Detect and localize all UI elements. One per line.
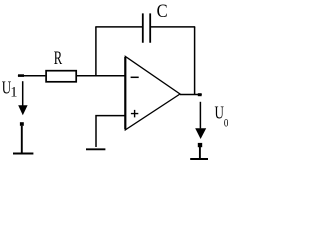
wire capacitor to right corner [151,26,195,28]
svg-text:C: C [157,1,168,22]
node above left ground [20,122,24,126]
node output junction [198,93,202,96]
wire input to resistor [18,75,46,77]
wire output down [199,102,201,129]
svg-text:U: U [215,103,224,123]
ground right [190,147,208,159]
svg-text:R: R [54,48,63,69]
input terminal [18,74,24,77]
voltage arrow U1 [18,105,27,115]
wire resistor to inverting input [77,75,125,77]
voltage arrow U0 [195,128,206,139]
op-amp [124,57,126,129]
ground left [13,126,33,154]
wire output [180,94,202,96]
svg-text:1: 1 [10,84,17,100]
wire feedback right vertical [194,27,196,95]
minus sign inverting input [131,76,139,78]
node above right ground [198,143,202,147]
wire feedback left vertical [95,27,97,76]
plus sign non-inverting input [131,110,138,118]
ground at non-inverting input [86,148,105,150]
wire non-inverting input [96,116,125,147]
svg-text:0: 0 [224,118,229,130]
resistor R [46,71,76,82]
wire top to capacitor [95,26,142,28]
wire U1 branch vertical [22,81,24,105]
capacitor C [143,13,150,42]
